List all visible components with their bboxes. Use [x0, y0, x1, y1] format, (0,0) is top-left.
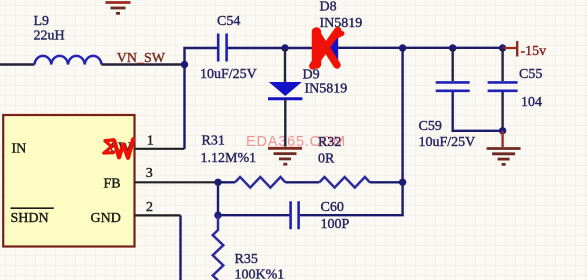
svg-text:IN5819: IN5819 [305, 82, 348, 97]
svg-text:R31: R31 [202, 134, 225, 149]
wire: rail from D8 to first output junction [338, 47, 403, 49]
svg-text:R32: R32 [318, 135, 341, 150]
node junction at (402.6,48) [399, 44, 406, 51]
wire: C55 top lead [501, 48, 503, 81]
capacitor C59 [436, 82, 470, 90]
svg-text:100K%1: 100K%1 [235, 267, 285, 280]
capacitor C54 (series, vertical plates) [218, 34, 226, 62]
wire: vertical riser from junction up to C54 rail [185, 48, 218, 65]
node junction at (218,182.3) [214, 179, 221, 186]
node junction at (452.7,48) [449, 44, 456, 51]
svg-text:L9: L9 [34, 14, 50, 29]
wire: GND pin drop to bottom edge [179, 215, 181, 280]
wire: rail to C59 junction [403, 47, 453, 49]
IC U1 body [3, 115, 134, 247]
svg-text:VN_SW: VN_SW [117, 51, 166, 66]
svg-text:IN: IN [12, 142, 27, 157]
node junction at (218,215.2) [214, 212, 221, 219]
wire: R31 to R32 [285, 181, 319, 183]
capacitor C60 (horizontal, vertical plates) [291, 201, 299, 229]
svg-text:10uF/25V: 10uF/25V [419, 135, 476, 150]
wire: C59 top lead [452, 48, 454, 81]
svg-text:1.12M%1: 1.12M%1 [201, 151, 257, 166]
svg-text:R35: R35 [235, 252, 258, 267]
power port -15v bar [516, 41, 518, 57]
svg-text:C59: C59 [419, 119, 442, 134]
ground symbol top left [106, 3, 131, 14]
wire: long vertical from rail down to C60 right [300, 48, 403, 215]
pin 2 line (GND) [135, 214, 181, 216]
wire: FB to R31 [218, 181, 235, 183]
ground symbol below D9 [268, 148, 302, 164]
wire: rail from C54 to D9 junction [228, 47, 285, 49]
diode D8 (in line, under red X) [319, 32, 338, 65]
wire: C60 left lead [218, 214, 289, 216]
wire: left rail from edge to L9 [0, 63, 35, 65]
wire: C59 bottom lead to bottom rail [453, 92, 503, 131]
resistor R32 [319, 177, 369, 188]
svg-text:GND: GND [91, 211, 121, 226]
node junction at (502.6,48) [499, 44, 506, 51]
svg-text:10uF/25V: 10uF/25V [200, 67, 257, 82]
ground symbol right [487, 149, 521, 165]
wire: rail from junction to D8 [285, 47, 316, 49]
svg-text:D8: D8 [320, 0, 337, 14]
node junction at (402.6,182.3) [399, 179, 406, 186]
wire: R32 to vertical [370, 181, 403, 183]
wire: rail to C55 junction [453, 47, 503, 49]
svg-text:3: 3 [146, 166, 153, 181]
wire: FB node down to C60 row [217, 182, 219, 215]
annotation red scribble over SW pin name [104, 139, 133, 158]
svg-text:1: 1 [147, 133, 154, 148]
wire: pin1 riser to VN_SW junction [183, 65, 185, 149]
ground stem below C55 [501, 131, 503, 147]
wire: rail from L9 to SW junction [102, 63, 185, 65]
svg-text:C60: C60 [321, 200, 344, 215]
inductor L9 [35, 56, 102, 65]
node junction at (285,48) [281, 44, 288, 51]
capacitor C55 [488, 82, 518, 90]
annotation red X over D8 [313, 31, 342, 67]
power stub wire to -15v bar [503, 47, 516, 49]
svg-text:FB: FB [104, 176, 121, 191]
svg-text:C55: C55 [519, 67, 542, 82]
node junction at (502.6,131) [499, 127, 506, 134]
resistor R35 (vertical) [213, 215, 224, 280]
wire: C55 bottom lead [501, 92, 503, 131]
svg-text:SHDN: SHDN [11, 211, 49, 226]
svg-text:D9: D9 [303, 67, 320, 82]
pin 3 line (FB) [135, 181, 219, 183]
svg-text:2: 2 [146, 200, 153, 215]
node junction VN_SW at (184.5,64.5) [181, 61, 188, 68]
svg-text:C54: C54 [217, 14, 240, 29]
svg-text:104: 104 [521, 95, 542, 110]
wire: D9 branch vertical [284, 48, 286, 82]
pin 1 line (SW) [135, 148, 185, 150]
svg-text:-15v: -15v [521, 44, 547, 59]
svg-text:22uH: 22uH [34, 29, 65, 44]
diode D9 (to ground) [268, 82, 302, 147]
resistor R31 [235, 177, 285, 188]
svg-text:100P: 100P [321, 217, 350, 232]
svg-text:0R: 0R [318, 152, 335, 167]
